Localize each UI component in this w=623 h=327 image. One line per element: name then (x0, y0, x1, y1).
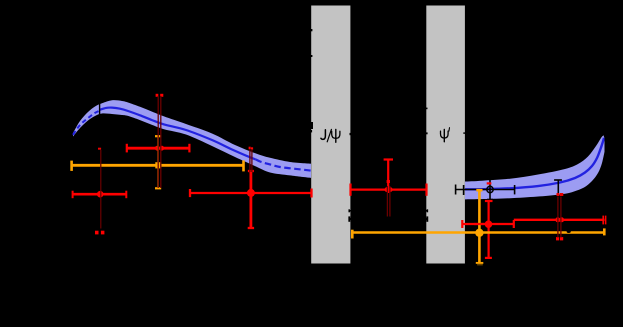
black data point B (x=490) h-bar (455, 179, 515, 200)
blue central curve left dashed tip (73, 111, 100, 135)
red point 1 top mini caps (98, 148, 101, 150)
gray band J/psi region (311, 5, 350, 264)
red point 4 error bars (351, 160, 427, 196)
orange point A marker (155, 162, 161, 168)
red point 6 markers (two) (555, 217, 560, 222)
blue central curve right segment (465, 138, 604, 190)
black data point B open circle marker (487, 186, 493, 192)
orange point B error bars (352, 190, 604, 263)
dark red thin v-lines of red point 3 (249, 149, 251, 172)
black cap blob on band1 left edge (311, 122, 314, 129)
tiny black tick on band2 right edge (463, 132, 465, 133)
red point 2 markers (two overlapping) (155, 146, 160, 151)
blue central curve dashed right of solid (256, 159, 312, 170)
orange point A error bars (72, 136, 244, 188)
J/psi label (drawn as paths) (321, 129, 340, 142)
plot frame (black, invisible on bg) (71, 5, 605, 264)
black transition tick on blue band at x=99.6 (99, 104, 100, 115)
black data point C (x=558) v-bar with caps (554, 180, 562, 240)
tiny black ticks on band1 left edge (311, 29, 313, 31)
dark red thin v-lines of red point 2 (157, 96, 159, 188)
orange point B marker (475, 229, 483, 237)
blue central curve left solid part (100, 108, 256, 160)
red point 6 top mini caps (557, 193, 560, 196)
red point 4 markers (two overlapping) (385, 187, 390, 192)
red point 3 top squares (249, 147, 251, 150)
blue uncertainty band left segment (73, 100, 311, 178)
red point 5 error bars (462, 182, 514, 258)
black data point D1 h-bar between bands (349, 209, 428, 212)
red point 2 top squares (156, 94, 159, 97)
red point 3 error bars (190, 171, 312, 228)
red point 5 marker (485, 220, 493, 228)
black data point D2 h-bar between bands (349, 216, 428, 221)
red point 3 marker (247, 189, 255, 197)
black data point B v-bar (489, 179, 491, 200)
red point 2 h-bar with caps (127, 144, 190, 153)
blue uncertainty band right segment (465, 135, 605, 199)
black tick on band1 right edge (350, 133, 351, 135)
dark red thin v-line of red point 1 (100, 150, 102, 229)
dark orange mark under orange B bottom cap (477, 264, 483, 265)
black blob over orange bar near x=568.7 (567, 230, 571, 233)
red point 1 marker (97, 191, 104, 198)
red point 6 bottom squares (556, 237, 559, 240)
dark red thin v-lines of red point 4 lower (386, 186, 388, 217)
gray band psi' region (426, 5, 465, 264)
red point 6 h-bar with caps (514, 216, 606, 225)
red point 2 h-bar repainted over orange v-line crossing (152, 147, 156, 149)
red point 1 bottom squares (95, 231, 99, 235)
red point 1 h-bar with caps (73, 191, 127, 199)
dark red thin v-lines of red point 6 (557, 197, 559, 238)
tiny black ticks on band2 left edge (426, 108, 428, 110)
psi' label (drawn as paths) (441, 128, 450, 142)
red point 5 h-bar repainted over orange v-line crossing (474, 223, 485, 225)
red point 5 small upper mark (487, 182, 492, 184)
